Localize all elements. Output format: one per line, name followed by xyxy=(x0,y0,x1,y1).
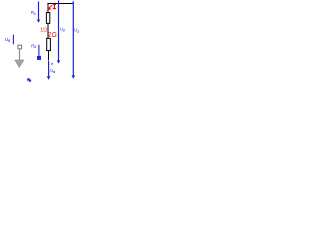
svg-text:2Ω: 2Ω xyxy=(48,32,57,39)
resistor R2 body xyxy=(47,38,51,50)
wire top horizontal xyxy=(47,3,73,5)
small blue mark bottom left xyxy=(27,78,31,81)
svg-text:1Ω: 1Ω xyxy=(40,27,47,33)
blue line to node square xyxy=(38,45,40,56)
left small blue arrow line xyxy=(12,35,14,45)
resistor R1 body xyxy=(46,13,49,24)
wire stub below R2 xyxy=(48,51,50,60)
voltage arrow U1 (right rail) xyxy=(72,1,76,79)
middle output voltage arrow xyxy=(47,61,51,80)
background xyxy=(0,0,90,90)
red glyph I at top xyxy=(53,4,56,9)
middle arrow label Ua with dot xyxy=(51,63,52,64)
current arrow I1 (top left, pointing down) xyxy=(37,2,41,23)
grey arrowhead xyxy=(15,60,24,67)
grey stem xyxy=(19,49,21,60)
red current arrow at top xyxy=(47,5,53,10)
wire between R1 and R2 xyxy=(47,24,49,38)
blue node square xyxy=(37,56,41,60)
voltage arrow U2 (left rail) xyxy=(57,1,61,64)
grey square terminal xyxy=(18,45,22,49)
wire stub above R1 xyxy=(47,4,49,13)
